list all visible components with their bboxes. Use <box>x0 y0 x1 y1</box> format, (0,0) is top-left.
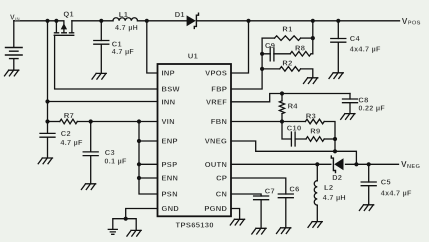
svg-text:R3: R3 <box>306 112 316 121</box>
node: R9/vertical junction <box>333 137 337 141</box>
capacitor C10 <box>282 122 306 140</box>
svg-text:4.7 µH: 4.7 µH <box>115 23 138 32</box>
wire: FBN pin line <box>231 121 305 123</box>
svg-text:VNEG: VNEG <box>205 137 227 146</box>
transistor Q1 (PMOS switch) <box>54 21 75 36</box>
svg-text:4x4.7 µF: 4x4.7 µF <box>350 45 381 54</box>
resistor R8 <box>290 52 311 57</box>
node: VIN row junction <box>45 119 49 123</box>
node: VPOS pin junction <box>246 19 250 23</box>
node: PSP junction <box>137 162 141 166</box>
wire: top rail L1 to D1 <box>138 20 187 22</box>
node: C1 junction <box>99 19 103 23</box>
node: C5 junction <box>367 162 371 166</box>
ground (battery) <box>5 70 19 76</box>
svg-text:PGND: PGND <box>204 204 227 213</box>
wire: feedback vertical B (R1 to FBP) <box>231 38 262 89</box>
node: R2 branch junction <box>260 67 264 71</box>
ground (C4) <box>329 73 343 79</box>
capacitor C9 <box>262 53 290 55</box>
svg-text:VREF: VREF <box>206 98 227 107</box>
wire: Q1 gate to BSW pin <box>55 35 158 89</box>
capacitor C1 <box>100 21 102 73</box>
svg-text:C7: C7 <box>265 187 275 196</box>
wire: PGND pin to ground <box>231 209 240 219</box>
resistor R4 <box>281 94 283 122</box>
svg-text:C4: C4 <box>350 34 361 43</box>
diode D2 (schottky) <box>331 156 343 172</box>
svg-text:4.7 µF: 4.7 µF <box>112 47 135 56</box>
node: VIN rail junction to left vertical <box>45 19 49 23</box>
svg-text:OUTN: OUTN <box>205 160 227 169</box>
node: R1 right junction <box>311 36 315 40</box>
wire: left vertical VIN branch <box>47 21 49 134</box>
svg-text:PSP: PSP <box>162 160 178 169</box>
svg-text:4.7 µH: 4.7 µH <box>323 193 346 202</box>
ground (C1) <box>92 73 106 79</box>
node: C9 branch junction <box>260 52 264 56</box>
resistor R9 <box>306 137 324 142</box>
svg-text:0.1 µF: 0.1 µF <box>104 156 127 165</box>
ground (GND, slash style) <box>127 230 141 236</box>
resistor R7 <box>48 121 60 123</box>
svg-text:C5: C5 <box>381 178 391 187</box>
svg-text:GND: GND <box>162 204 180 213</box>
node: ENx vertical junction <box>137 119 141 123</box>
ground (L2) <box>308 222 322 228</box>
svg-text:D2: D2 <box>332 173 342 182</box>
svg-text:L2: L2 <box>324 183 333 192</box>
wire: VREF pin to C8/R4 <box>231 94 350 102</box>
node: INP drop junction <box>145 19 149 23</box>
svg-text:VPOS: VPOS <box>205 69 227 78</box>
svg-text:BSW: BSW <box>162 85 181 94</box>
wire: CN pin to C7 <box>231 194 261 196</box>
capacitor C6 <box>278 194 293 198</box>
capacitor C5 <box>368 164 370 204</box>
wire: top rail D1 to VPOS <box>196 20 399 22</box>
capacitor C3 <box>90 122 92 184</box>
ground (R2) <box>304 78 318 84</box>
node: Q1 source junction <box>54 19 58 23</box>
wire: VNEG pin sense line <box>231 141 356 164</box>
node: R4 top junction <box>280 91 284 95</box>
svg-text:PSN: PSN <box>162 190 178 199</box>
diode D1 (schottky) <box>187 13 199 28</box>
node: FB net joins VNEG sense <box>333 149 337 153</box>
node: R1/R8 feedback junction <box>311 19 315 23</box>
wire: CP pin to C6 <box>231 178 286 194</box>
capacitor C7 <box>254 196 269 200</box>
capacitor C2 <box>47 137 49 157</box>
svg-text:INN: INN <box>162 98 176 107</box>
svg-text:FBP: FBP <box>211 85 227 94</box>
svg-text:0.22 µF: 0.22 µF <box>358 104 385 113</box>
node: ENP junction <box>137 139 141 143</box>
svg-text:VIN: VIN <box>162 117 175 126</box>
ground (C8) <box>341 114 355 120</box>
inductor L1 <box>113 18 137 21</box>
svg-text:ENP: ENP <box>162 137 178 146</box>
svg-text:FBN: FBN <box>211 117 227 126</box>
svg-text:CP: CP <box>216 174 227 183</box>
wire: VPOS pin to rail <box>231 21 249 73</box>
node: R4 bottom / C10 branch junction <box>280 119 284 123</box>
ground (GND, earth bar style) <box>108 229 117 234</box>
svg-text:L1: L1 <box>119 10 128 19</box>
svg-text:INP: INP <box>162 69 175 78</box>
wire: GND pin to grounds <box>113 209 158 231</box>
node: INN junction <box>45 99 49 103</box>
ground (C6) <box>277 228 291 234</box>
capacitor C4 <box>337 21 339 72</box>
svg-text:R2: R2 <box>282 58 292 67</box>
svg-text:Q1: Q1 <box>63 9 74 18</box>
capacitor C8 <box>349 94 351 113</box>
resistor R2 <box>262 68 280 70</box>
wire: INN pin line <box>48 101 158 103</box>
wire: enable vertical and ENP/PSP/ENN/PSN pin lines <box>139 122 158 195</box>
svg-text:R8: R8 <box>295 43 305 52</box>
node: C3 junction <box>89 119 93 123</box>
svg-text:ENN: ENN <box>162 174 179 183</box>
resistor R1 <box>262 37 274 39</box>
ground (PGND) <box>230 219 244 225</box>
svg-text:R1: R1 <box>282 25 292 34</box>
svg-text:C6: C6 <box>289 184 299 193</box>
ground (C2) <box>38 158 52 164</box>
ground (C3) <box>81 184 95 190</box>
wire: to INP pin <box>147 21 158 73</box>
svg-text:R7: R7 <box>64 111 74 120</box>
svg-text:C2: C2 <box>61 129 71 138</box>
node: ENN junction <box>137 176 141 180</box>
wire: VIN top rail left segment <box>14 20 57 22</box>
ground (C7) <box>252 228 266 234</box>
svg-text:D1: D1 <box>175 10 185 19</box>
svg-text:C10: C10 <box>287 123 302 132</box>
svg-text:R9: R9 <box>310 127 320 136</box>
node: GND junction <box>124 217 128 221</box>
battery V1 (input source) <box>13 21 15 70</box>
op IC U1 TPS65130 box <box>158 64 232 216</box>
svg-text:TPS65130: TPS65130 <box>176 220 214 229</box>
wire: feedback vertical A (rail to R1/R8) <box>312 21 314 54</box>
svg-text:C9: C9 <box>265 41 275 50</box>
ground (C5) <box>359 205 373 211</box>
svg-text:U1: U1 <box>188 51 198 60</box>
svg-text:4.7 µF: 4.7 µF <box>60 138 83 147</box>
svg-text:VIN: VIN <box>10 14 20 21</box>
wire: OUTN rail <box>231 163 399 165</box>
inductor L2 <box>316 164 318 221</box>
node: C4 junction <box>336 19 340 23</box>
node: L2 junction <box>315 162 319 166</box>
svg-text:4x4.7 µF: 4x4.7 µF <box>381 188 412 197</box>
svg-text:CN: CN <box>216 190 227 199</box>
wire: feedback vertical to VNEG sense line <box>334 139 336 151</box>
wire: top rail Q1 drain to L1 <box>72 20 113 22</box>
node: feedback junction on VNEG rail <box>354 162 358 166</box>
svg-text:R4: R4 <box>288 101 299 110</box>
resistor R3 <box>305 119 324 124</box>
